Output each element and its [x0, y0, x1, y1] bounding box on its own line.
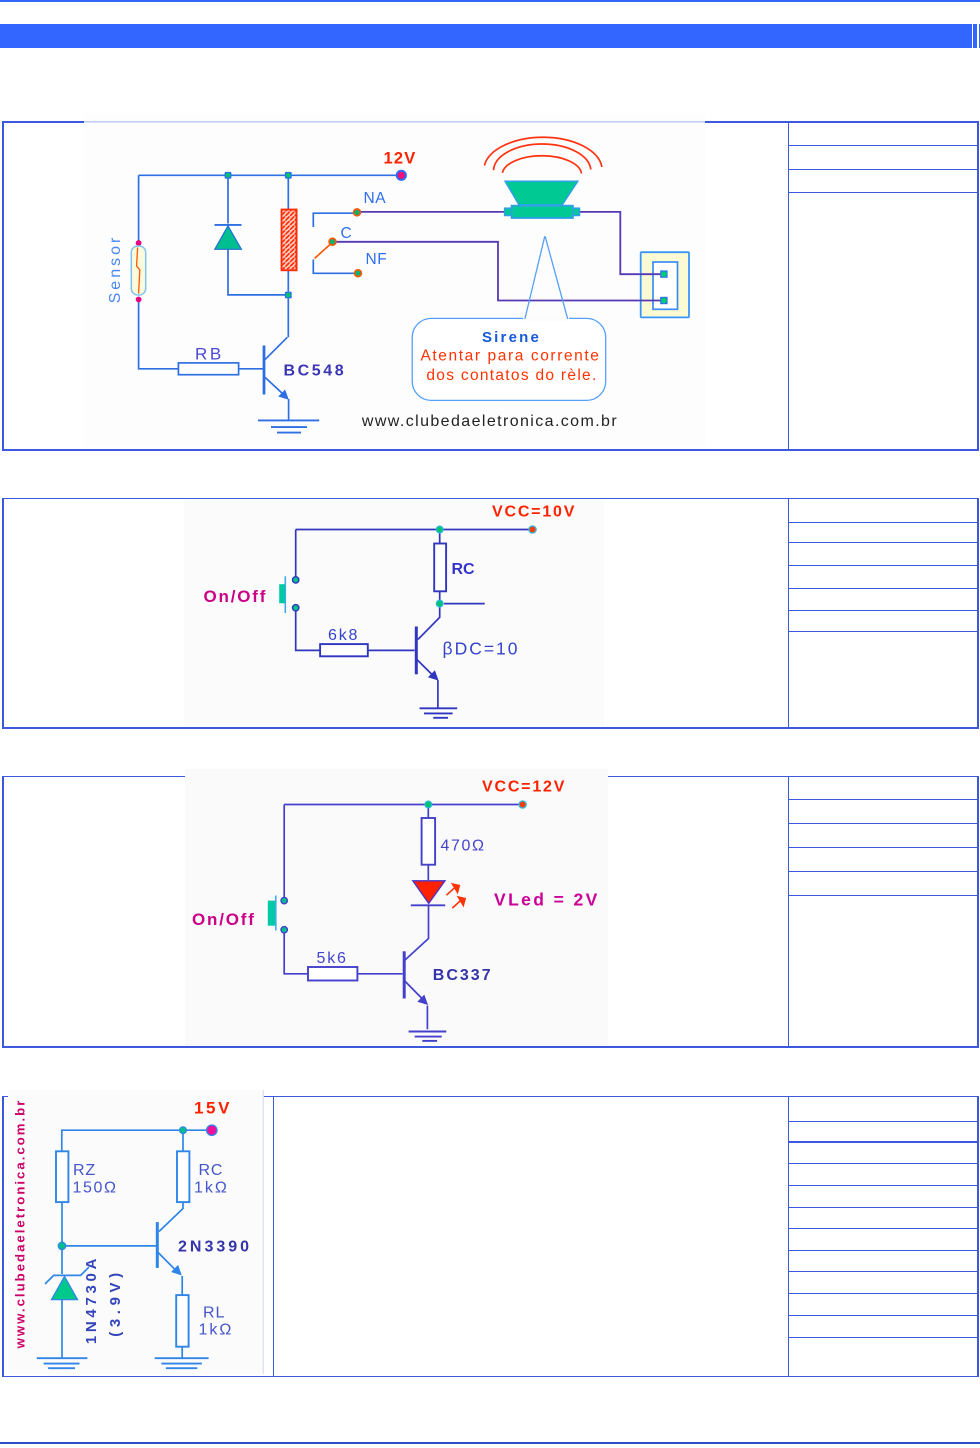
- svg-text:1N4730A: 1N4730A: [83, 1255, 100, 1344]
- LED arrow 1: [447, 884, 466, 908]
- wire RC top: [182, 1130, 184, 1151]
- resistor RZ: [56, 1151, 68, 1202]
- wire button top: [295, 530, 297, 584]
- wire NA to siren (purple): [361, 211, 506, 213]
- faded table border behind image: [84, 121, 705, 122]
- wire RC top: [439, 530, 441, 544]
- node rail junction: [436, 526, 443, 533]
- contact NF: [355, 270, 362, 277]
- push button plunger: [275, 896, 277, 931]
- node junction B: [285, 172, 292, 179]
- zener diode: [52, 1277, 78, 1300]
- button contact bottom: [293, 605, 299, 611]
- wire stubs into terminal: [640, 274, 661, 300]
- node rail junction: [425, 801, 432, 808]
- wire RC bottom: [439, 591, 441, 600]
- wire sensor left drop: [138, 175, 140, 241]
- svg-text:www.clubedaeletronica.com.br: www.clubedaeletronica.com.br: [13, 1099, 28, 1350]
- resistor 470: [422, 818, 436, 865]
- wire coil bottom: [287, 270, 289, 291]
- svg-text:Atentar para corrente: Atentar para corrente: [420, 348, 600, 365]
- svg-text:2N3390: 2N3390: [178, 1239, 252, 1256]
- wire 6k8 to base: [368, 649, 415, 651]
- wire C to terminal (purple): [336, 242, 663, 301]
- wire 470 bottom to LED: [427, 865, 429, 880]
- diode D1 cathode bar: [215, 224, 242, 226]
- ground left: [37, 1358, 88, 1368]
- svg-text:On/Off: On/Off: [204, 587, 268, 606]
- ground right: [155, 1358, 209, 1368]
- node base junction: [58, 1242, 65, 1249]
- wire NA bracket: [313, 213, 353, 227]
- ground: [258, 420, 319, 432]
- ground: [420, 708, 458, 718]
- svg-text:C: C: [341, 225, 352, 242]
- svg-text:βDC=10: βDC=10: [443, 639, 520, 659]
- siren cone: [505, 181, 578, 205]
- svg-text:1kΩ: 1kΩ: [194, 1180, 229, 1197]
- transistor Q1 emitter: [265, 377, 284, 394]
- wire RB to base: [239, 368, 263, 370]
- contact NA: [354, 209, 361, 216]
- svg-text:VCC=12V: VCC=12V: [482, 779, 566, 796]
- terminal block inner: [653, 262, 678, 309]
- footer rule: [0, 1442, 980, 1444]
- node 12V dot: [397, 171, 406, 180]
- wire diode top: [227, 175, 229, 223]
- svg-text:RL: RL: [203, 1305, 225, 1322]
- resistor 5k6: [308, 967, 357, 981]
- sensor bottom terminal: [136, 297, 142, 303]
- wire sensor to RB: [139, 302, 179, 369]
- wire base: [62, 1245, 156, 1247]
- transistor Q1 collector: [265, 337, 288, 360]
- terminal pin 1: [660, 270, 667, 277]
- resistor RB: [178, 363, 238, 375]
- wire diode bottom to node: [228, 249, 285, 295]
- sensor element: [137, 248, 140, 294]
- wire zener to ground: [61, 1300, 63, 1358]
- svg-text:Sensor: Sensor: [107, 235, 124, 304]
- transistor emitter: [405, 981, 423, 1000]
- header top hairline: [0, 0, 980, 2]
- siren left tab: [505, 208, 512, 215]
- node junction A: [225, 172, 232, 179]
- button contact bottom: [281, 927, 287, 933]
- svg-text:VCC=10V: VCC=10V: [492, 504, 576, 521]
- svg-text:VLed = 2V: VLed = 2V: [494, 890, 600, 910]
- wire node to zener: [61, 1249, 63, 1275]
- wire 470 top: [427, 805, 429, 819]
- emitter arrow: [417, 995, 428, 1005]
- wire RL bottom: [181, 1347, 183, 1358]
- schematic image 1: relay alarm circuit: [84, 113, 705, 447]
- schematic image 3: LED driver BC337: [185, 769, 608, 1045]
- wire RZ bottom to node: [61, 1202, 63, 1243]
- switch arm: [315, 245, 331, 259]
- node junction C: [285, 292, 292, 299]
- svg-text:NF: NF: [366, 251, 388, 268]
- wire emitter drop: [426, 1006, 428, 1030]
- svg-text:6k8: 6k8: [328, 627, 359, 644]
- zener bar with wings: [45, 1267, 89, 1284]
- svg-text:NA: NA: [364, 190, 387, 207]
- emitter arrow: [278, 390, 289, 400]
- wire VCC rail: [284, 804, 521, 806]
- wire node to collector: [287, 299, 289, 338]
- node VCC dot: [519, 801, 526, 808]
- sensor top terminal: [136, 240, 142, 246]
- transistor Q1 bar: [263, 346, 266, 395]
- wire LED to collector: [405, 906, 429, 960]
- svg-text:1kΩ: 1kΩ: [199, 1322, 234, 1339]
- svg-text:150Ω: 150Ω: [73, 1180, 118, 1197]
- node 15V dot: [207, 1125, 217, 1135]
- wire 5k6 to base: [357, 973, 402, 975]
- sensor body: [131, 246, 145, 295]
- terminal pin 2: [660, 297, 667, 304]
- svg-text:RC: RC: [452, 561, 476, 578]
- image right edge line: [263, 1090, 264, 1374]
- emitter arrow: [171, 1265, 182, 1276]
- wire emitter to ground: [288, 399, 290, 420]
- wire 12V rail: [139, 174, 399, 176]
- wire VCC rail: [296, 529, 531, 531]
- svg-text:RZ: RZ: [73, 1162, 96, 1179]
- LED arrow 2: [452, 901, 460, 908]
- transistor emitter: [417, 660, 434, 676]
- svg-text:www.clubedaeletronica.com.br: www.clubedaeletronica.com.br: [361, 413, 618, 430]
- terminal block outer: [641, 252, 689, 317]
- schematic image 2: transistor switch betaDC=10: [184, 500, 604, 726]
- wire collector: [418, 607, 440, 640]
- LED cathode bar: [411, 904, 445, 906]
- wire button bottom to 5k6: [284, 933, 308, 974]
- siren right tab: [573, 208, 580, 215]
- node collector junction: [436, 600, 443, 607]
- resistor 6k8: [320, 644, 368, 656]
- svg-text:BC548: BC548: [284, 363, 347, 380]
- svg-text:Sirene: Sirene: [482, 329, 541, 346]
- svg-text:BC337: BC337: [433, 967, 493, 984]
- bubble pointer: [525, 236, 568, 319]
- ground: [409, 1032, 447, 1041]
- svg-text:On/Off: On/Off: [192, 910, 256, 929]
- push button plunger: [284, 576, 286, 613]
- node rail junction: [180, 1127, 187, 1134]
- svg-text:470Ω: 470Ω: [441, 838, 486, 855]
- LED D1: [413, 881, 445, 904]
- resistor RC: [434, 544, 446, 592]
- button contact top: [293, 577, 299, 583]
- resistor RC: [177, 1151, 189, 1202]
- svg-text:RB: RB: [195, 345, 224, 364]
- wire siren to terminal (purple): [580, 212, 664, 274]
- svg-text:RC: RC: [199, 1162, 224, 1179]
- transistor Q bar: [156, 1222, 159, 1268]
- push button cap: [279, 584, 285, 603]
- wire collector tap: [444, 603, 485, 605]
- svg-text:12V: 12V: [384, 150, 417, 168]
- svg-text:15V: 15V: [194, 1099, 232, 1118]
- siren arcs: [484, 137, 602, 173]
- svg-text:5k6: 5k6: [317, 950, 348, 967]
- transistor Q bar: [415, 627, 418, 675]
- wire NF bracket: [313, 260, 354, 274]
- contact C: [329, 238, 336, 245]
- svg-text:(3.9V): (3.9V): [107, 1268, 124, 1336]
- wire top rail: [62, 1130, 209, 1151]
- wire emitter drop: [437, 680, 439, 708]
- wire emitter to RL: [181, 1276, 183, 1295]
- svg-text:dos contatos do rèle.: dos contatos do rèle.: [426, 367, 597, 384]
- resistor RL: [176, 1295, 188, 1347]
- header blue bar: [0, 24, 980, 48]
- wire left drop to button: [283, 805, 285, 898]
- wire button bottom to 6k8: [296, 611, 320, 650]
- button contact top: [281, 897, 287, 903]
- diode D1: [215, 226, 242, 250]
- push button cap: [268, 901, 275, 926]
- transistor Q bar: [403, 951, 406, 998]
- callout bubble: [412, 318, 606, 400]
- wire RC bottom to collector: [159, 1202, 183, 1231]
- transistor emitter: [158, 1252, 176, 1270]
- wire coil top: [287, 175, 289, 209]
- node VCC dot: [529, 526, 536, 533]
- siren driver: [512, 206, 573, 218]
- schematic image 4: zener regulator 2N3390: [8, 1090, 264, 1374]
- emitter arrow: [428, 670, 439, 680]
